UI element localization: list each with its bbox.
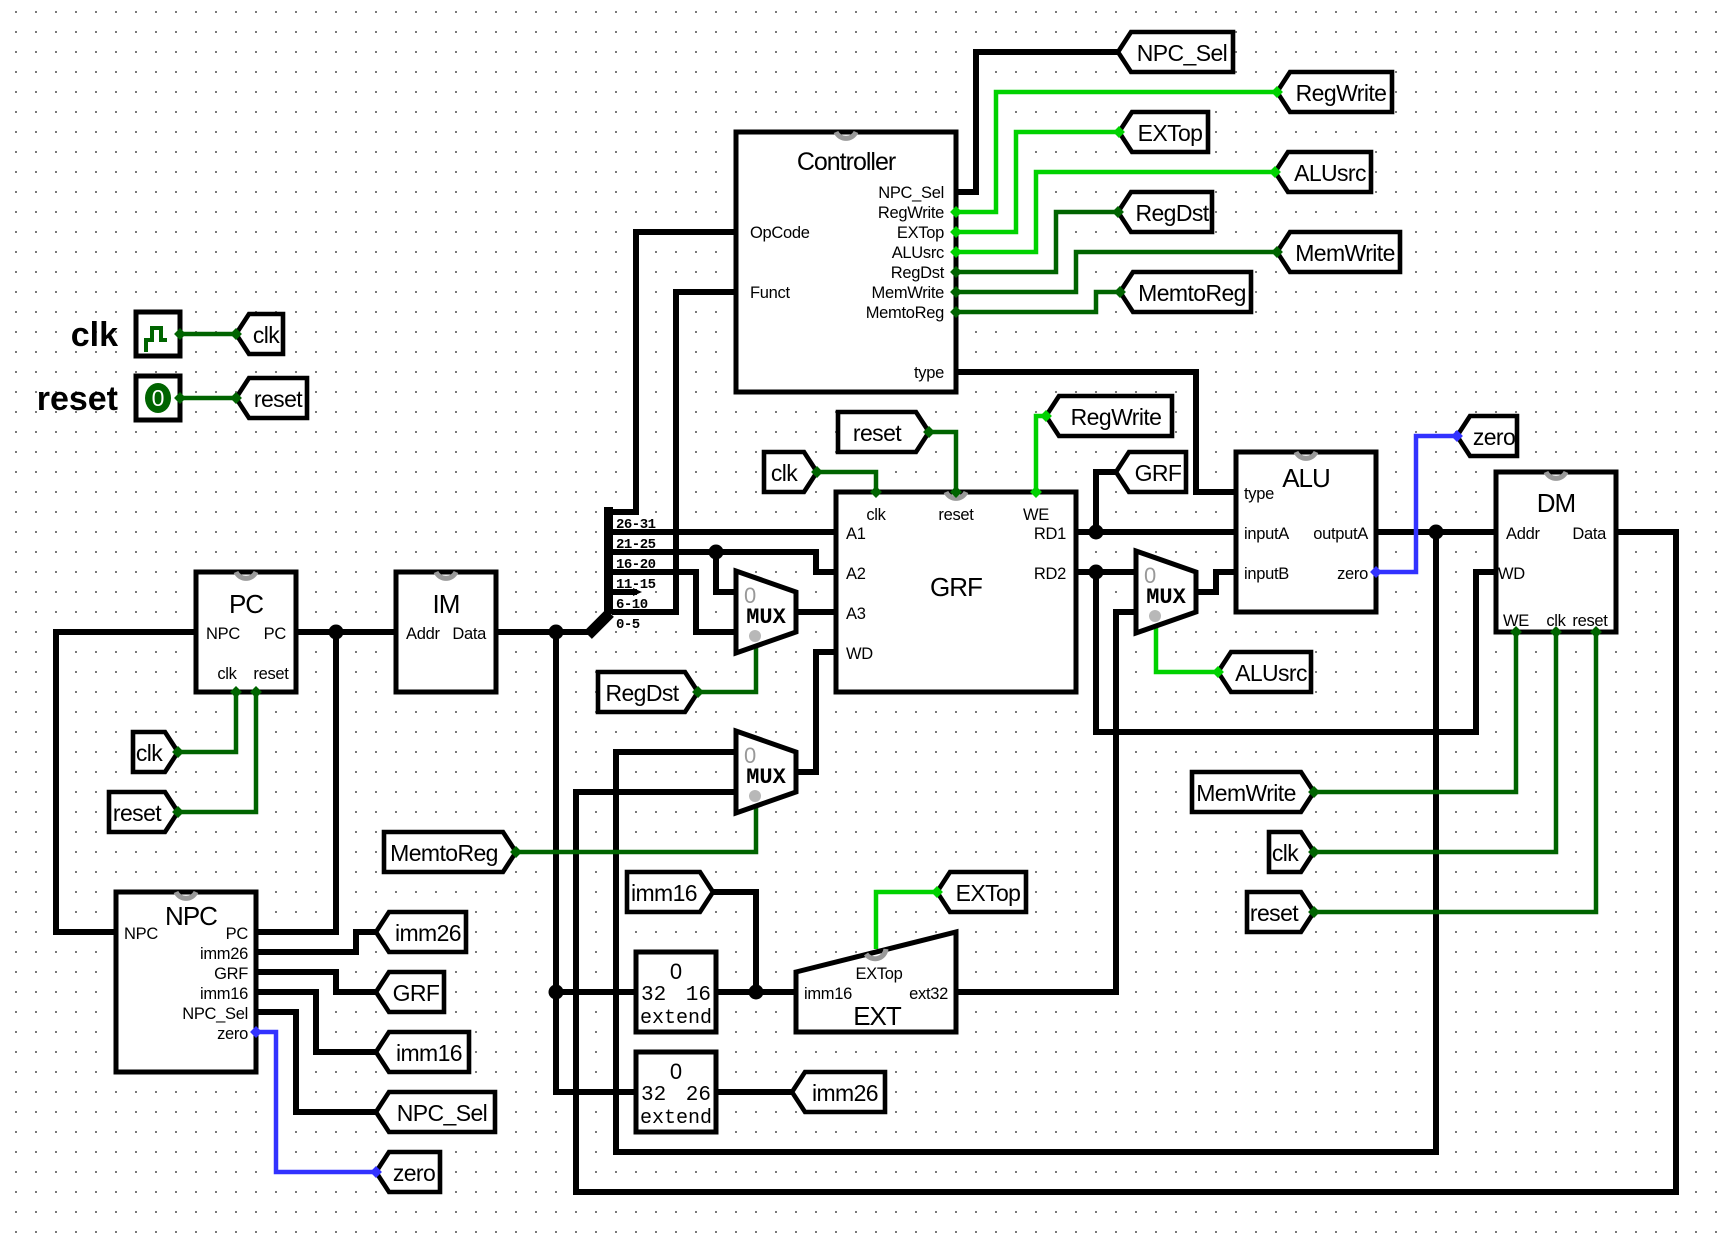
svg-text:WE: WE xyxy=(1023,506,1049,524)
svg-text:A2: A2 xyxy=(846,565,866,583)
svg-text:extend: extend xyxy=(640,1107,712,1130)
wire reset input pin to reset tunnel xyxy=(180,396,236,401)
tunnel zero at 1457,436 xyxy=(1457,416,1517,456)
wire clk tunnel to DM clk xyxy=(1314,629,1556,852)
clk input pin xyxy=(136,312,180,356)
svg-text:reset: reset xyxy=(254,386,303,412)
extender 32-16 block xyxy=(636,952,716,1032)
svg-text:DM: DM xyxy=(1537,488,1575,518)
wire RD2 node down and around to DM WD xyxy=(1096,572,1496,732)
svg-text:ALU: ALU xyxy=(1282,463,1330,493)
wire PC value riser to NPC PC input xyxy=(256,632,336,932)
notch ALU xyxy=(1296,452,1316,458)
svg-text:clk: clk xyxy=(253,322,280,348)
svg-text:WD: WD xyxy=(1498,565,1525,583)
label MUX3 texts xyxy=(1144,563,1187,610)
wire RegDst: Controller to RegDst tunnel xyxy=(956,212,1118,272)
tunnel RegDst at 698,692 xyxy=(598,672,698,712)
wire ALUsrc tunnel to MUX3 select xyxy=(1156,623,1218,672)
MUX1 RegDst mux xyxy=(736,571,796,653)
wire EXT ext32 output to MUX3 input 1 xyxy=(956,612,1136,992)
svg-text:Data: Data xyxy=(452,625,487,643)
wire ALU outputA to DM Addr xyxy=(1376,529,1496,535)
ALU block xyxy=(1236,452,1376,612)
svg-text:11-15: 11-15 xyxy=(616,577,656,593)
svg-text:inputA: inputA xyxy=(1244,525,1289,543)
svg-text:NPC_Sel: NPC_Sel xyxy=(397,1100,487,1126)
svg-text:MemtoReg: MemtoReg xyxy=(1138,280,1246,306)
MUX2 select dot xyxy=(749,790,761,802)
MUX3 select dot xyxy=(1149,610,1161,622)
label Controller left pins xyxy=(750,224,810,302)
wire GRF tunnel tap to RD1 node xyxy=(1096,472,1116,532)
wire zero: ALU zero to zero tunnel xyxy=(1376,436,1457,572)
tunnel GRF at 376,992 xyxy=(376,972,444,1012)
wire RegWrite: Controller to RegWrite tunnel xyxy=(956,92,1277,212)
wire NPC_Sel: Controller NPC_Sel output to NPC_Sel tunnel xyxy=(956,52,1118,192)
wire splitter 11-15 spoke to MUX1 input 1 xyxy=(612,572,736,632)
tunnel RegWrite at 1277,92 xyxy=(1277,72,1392,112)
svg-text:0: 0 xyxy=(670,1059,682,1084)
tunnel MemWrite at 1277,252 xyxy=(1277,232,1400,272)
extender 32-26 block xyxy=(636,1052,716,1132)
splitter stem diagonal xyxy=(588,613,610,635)
tunnel MemWrite at 1314,792 xyxy=(1192,772,1314,812)
IM instruction memory block xyxy=(396,572,496,692)
tunnel EXTop at 1119,132 xyxy=(1119,112,1208,152)
notch DM xyxy=(1546,472,1566,478)
svg-text:16-20: 16-20 xyxy=(616,557,656,573)
node instruction bus to extend 32-16 junction xyxy=(549,985,564,1000)
svg-text:GRF: GRF xyxy=(1135,460,1182,486)
svg-text:type: type xyxy=(1244,485,1274,503)
node IM Data junction xyxy=(549,625,564,640)
svg-text:6-10: 6-10 xyxy=(616,597,648,613)
svg-text:MemtoReg: MemtoReg xyxy=(390,840,498,866)
wire MUX1 output to GRF A3 xyxy=(796,609,836,615)
svg-text:imm26: imm26 xyxy=(812,1080,878,1106)
svg-text:extend: extend xyxy=(640,1007,712,1030)
label ALU title and pins xyxy=(1244,463,1368,583)
svg-text:IM: IM xyxy=(433,589,460,619)
wire OpCode: splitter 26-31 spoke to Controller OpCode xyxy=(612,232,736,512)
svg-text:type: type xyxy=(914,364,944,382)
svg-text:RegDst: RegDst xyxy=(891,264,945,282)
tunnel imm16 at 376,1052 xyxy=(376,1032,469,1072)
label Controller right pins xyxy=(866,184,945,382)
svg-text:reset: reset xyxy=(1250,900,1299,926)
svg-text:outputA: outputA xyxy=(1313,525,1368,543)
wire instruction bus down-left to extend 32-26 input xyxy=(556,632,636,1092)
label extender 32-16 texts xyxy=(640,959,712,1030)
svg-text:EXTop: EXTop xyxy=(1138,120,1203,146)
svg-text:imm16: imm16 xyxy=(200,985,248,1003)
svg-text:MemtoReg: MemtoReg xyxy=(866,304,944,322)
wire reset tunnel to PC reset xyxy=(178,689,256,812)
svg-text:GRF: GRF xyxy=(214,965,248,983)
wire EXTop: Controller to EXTop tunnel xyxy=(956,132,1119,232)
wire extend 32-16 output to EXT imm16 input xyxy=(716,989,796,995)
wire EXTop tunnel to EXT EXTop xyxy=(876,892,937,949)
tunnel ALUsrc at 1218,672 xyxy=(1218,652,1311,692)
svg-text:RegDst: RegDst xyxy=(1135,200,1209,226)
label PC title and pins xyxy=(206,589,289,683)
tunnel NPC_Sel at 376,1112 xyxy=(376,1092,495,1132)
wire splitter 16-20 spoke to GRF A2 xyxy=(612,552,836,572)
svg-text:clk: clk xyxy=(217,665,237,683)
svg-text:0: 0 xyxy=(152,385,165,411)
tunnel zero at 376,1172 xyxy=(376,1152,440,1192)
svg-text:0: 0 xyxy=(670,959,682,984)
EXT sign extender block xyxy=(796,932,956,1032)
svg-text:A3: A3 xyxy=(846,605,866,623)
svg-text:zero: zero xyxy=(1473,424,1515,450)
svg-text:Addr: Addr xyxy=(1506,525,1540,543)
tunnel reset at 178,812 xyxy=(109,792,178,832)
label IM title and pins xyxy=(406,589,487,643)
svg-text:32: 32 xyxy=(641,1084,666,1107)
node ALU outputA junction xyxy=(1429,525,1444,540)
wire MemWrite: Controller to MemWrite tunnel xyxy=(956,252,1277,292)
NPC block xyxy=(116,892,256,1072)
tunnel ALUsrc at 1275,172 xyxy=(1275,152,1371,192)
tunnel RegWrite at 1046,416 xyxy=(1046,396,1172,436)
tunnel clk at 817,472 xyxy=(764,452,817,492)
svg-text:NPC_Sel: NPC_Sel xyxy=(1137,40,1227,66)
label extender 32-26 texts xyxy=(640,1059,712,1130)
PC register block xyxy=(196,572,296,692)
svg-text:GRF: GRF xyxy=(393,980,440,1006)
wire MUX2 output to GRF WD xyxy=(796,652,836,772)
svg-text:zero: zero xyxy=(393,1160,435,1186)
svg-text:imm26: imm26 xyxy=(395,920,461,946)
svg-text:Controller: Controller xyxy=(797,148,896,176)
wire Funct: splitter 0-5 spoke to Controller Funct xyxy=(612,292,736,612)
notch GRF xyxy=(946,492,966,498)
svg-text:NPC: NPC xyxy=(124,925,158,943)
svg-text:clk: clk xyxy=(771,460,798,486)
label splitter bit ranges xyxy=(616,517,656,633)
svg-text:clk: clk xyxy=(866,506,886,524)
tunnel imm26 at 376,932 xyxy=(376,912,466,952)
svg-text:A1: A1 xyxy=(846,525,866,543)
tunnel MemtoReg at 1120,292 xyxy=(1120,272,1251,312)
wire clk tunnel to GRF clk xyxy=(817,472,876,494)
svg-text:reset: reset xyxy=(853,420,902,446)
wire NPC output loop to PC NPC input xyxy=(56,632,196,932)
label NPC title and pins xyxy=(124,901,248,1043)
MUX1 select dot xyxy=(749,630,761,642)
wire MemtoReg: Controller to MemtoReg tunnel xyxy=(956,292,1120,312)
label DM title and pins xyxy=(1498,488,1608,630)
wire MUX3 output to ALU inputB xyxy=(1196,572,1236,592)
svg-text:clk: clk xyxy=(71,316,118,354)
svg-text:EXTop: EXTop xyxy=(855,965,902,983)
svg-text:inputB: inputB xyxy=(1244,565,1289,583)
svg-text:ALUsrc: ALUsrc xyxy=(892,244,944,262)
node PC to IM junction xyxy=(329,625,344,640)
svg-text:32: 32 xyxy=(641,984,666,1007)
svg-text:ext32: ext32 xyxy=(909,985,948,1003)
svg-text:RegWrite: RegWrite xyxy=(1071,404,1162,430)
label EXT title and pins xyxy=(804,965,948,1031)
svg-text:RD2: RD2 xyxy=(1034,565,1066,583)
splitter 6-10 spoke tip xyxy=(633,588,642,596)
svg-text:MemWrite: MemWrite xyxy=(1196,780,1296,806)
svg-text:26: 26 xyxy=(686,1084,711,1107)
node imm16 tap junction xyxy=(749,985,764,1000)
wire branch from node at 716,552 to MUX1 input 0 xyxy=(716,552,736,592)
tunnel reset at 929,432 xyxy=(838,412,929,452)
svg-text:EXTop: EXTop xyxy=(897,224,944,242)
wire NPC GRF input from GRF tunnel xyxy=(256,972,376,992)
svg-text:imm16: imm16 xyxy=(631,880,697,906)
svg-text:RegWrite: RegWrite xyxy=(1296,80,1387,106)
wire RegDst tunnel to MUX1 select xyxy=(698,645,756,692)
svg-text:zero: zero xyxy=(217,1025,248,1043)
svg-text:PC: PC xyxy=(264,625,287,643)
svg-text:WD: WD xyxy=(846,645,873,663)
svg-text:MemWrite: MemWrite xyxy=(872,284,945,302)
reset input pin xyxy=(136,376,180,420)
wire zero tunnel to NPC zero input xyxy=(256,1032,376,1172)
tunnel clk at 178,752 xyxy=(133,732,178,772)
svg-text:MUX: MUX xyxy=(746,605,786,630)
svg-text:0-5: 0-5 xyxy=(616,617,640,633)
svg-text:EXTop: EXTop xyxy=(956,880,1021,906)
svg-text:Addr: Addr xyxy=(406,625,440,643)
wire clk tunnel to PC clk xyxy=(178,689,236,752)
svg-text:PC: PC xyxy=(229,589,263,619)
wire RegWrite tunnel to GRF WE xyxy=(1036,416,1046,494)
svg-text:Data: Data xyxy=(1572,525,1607,543)
tunnel NPC_Sel at 1118,52 xyxy=(1118,32,1233,72)
wire NPC imm16 input from imm16 tunnel xyxy=(256,992,376,1052)
svg-text:PC: PC xyxy=(226,925,249,943)
svg-text:OpCode: OpCode xyxy=(750,224,810,242)
wire GRF RD1 to ALU inputA xyxy=(1076,529,1236,535)
svg-text:NPC: NPC xyxy=(206,625,240,643)
svg-text:NPC: NPC xyxy=(165,901,217,931)
wire NPC NPC_Sel input from NPC_Sel tunnel xyxy=(256,1012,376,1112)
tunnel RegDst at 1118,212 xyxy=(1118,192,1212,232)
label MUX2 texts xyxy=(744,743,787,790)
wire PC output to IM Addr xyxy=(296,629,396,635)
wire reset tunnel to GRF reset xyxy=(929,432,956,494)
svg-text:clk: clk xyxy=(1546,612,1566,630)
svg-text:reset: reset xyxy=(37,380,118,418)
svg-text:RD1: RD1 xyxy=(1034,525,1066,543)
GRF register file block xyxy=(836,492,1076,692)
svg-text:WE: WE xyxy=(1503,612,1529,630)
svg-text:RegWrite: RegWrite xyxy=(878,204,944,222)
tunnel reset at 1314,912 xyxy=(1247,892,1314,932)
wire splitter 21-25 spoke to GRF A1 xyxy=(612,529,836,535)
label MUX1 texts xyxy=(744,583,787,630)
tunnel EXTop at 937,892 xyxy=(937,872,1026,912)
tunnel reset at 236,398 xyxy=(236,378,307,418)
svg-text:RegDst: RegDst xyxy=(605,680,679,706)
svg-text:clk: clk xyxy=(136,740,163,766)
svg-text:16: 16 xyxy=(686,984,711,1007)
svg-text:reset: reset xyxy=(113,800,162,826)
svg-text:21-25: 21-25 xyxy=(616,537,656,553)
svg-text:reset: reset xyxy=(938,506,974,524)
svg-text:zero: zero xyxy=(1337,565,1368,583)
svg-text:reset: reset xyxy=(253,665,289,683)
svg-text:ALUsrc: ALUsrc xyxy=(1235,660,1307,686)
wire GRF RD2 to MUX3 input 0 xyxy=(1076,569,1136,575)
MUX2 MemtoReg mux xyxy=(736,731,796,813)
wire ALU result loop to MUX2 input 0 xyxy=(616,532,1436,1152)
tunnel imm16 at 713,892 xyxy=(627,872,713,912)
svg-text:imm16: imm16 xyxy=(396,1040,462,1066)
wire IM Data output to splitter stem xyxy=(496,629,590,635)
notch Controller xyxy=(836,132,856,138)
svg-text:imm26: imm26 xyxy=(200,945,248,963)
wire ALUsrc: Controller to ALUsrc tunnel xyxy=(956,172,1275,252)
node RD1 junction xyxy=(1089,525,1104,540)
svg-text:EXT: EXT xyxy=(853,1001,902,1031)
svg-text:NPC_Sel: NPC_Sel xyxy=(878,184,944,202)
notch NPC xyxy=(176,892,196,898)
wire imm16 tunnel tap riser xyxy=(713,892,756,992)
DM data memory block xyxy=(1496,472,1616,632)
node RD2 junction xyxy=(1089,565,1104,580)
wire NPC PC... imm26 output jog to imm26 tunnel xyxy=(256,932,376,952)
svg-text:ALUsrc: ALUsrc xyxy=(1294,160,1366,186)
wire MemWrite tunnel to DM WE xyxy=(1314,629,1516,792)
wire clk input pin to clk tunnel xyxy=(180,332,236,337)
wire extend 32-26 output to imm26 tunnel xyxy=(716,1089,792,1095)
tunnel imm26 at 792,1092 xyxy=(792,1072,885,1112)
wire splitter 6-10 stub xyxy=(612,589,637,595)
tunnel MemtoReg at 516,852 xyxy=(384,832,516,872)
wire MemtoReg tunnel to MUX2 select xyxy=(516,804,756,852)
svg-text:MUX: MUX xyxy=(746,765,786,790)
reset input pin zero value oval xyxy=(145,383,171,413)
clk input pin waveform icon xyxy=(146,328,167,352)
notch EXT xyxy=(866,949,886,959)
svg-text:Funct: Funct xyxy=(750,284,790,302)
svg-text:MemWrite: MemWrite xyxy=(1295,240,1395,266)
splitter bar xyxy=(604,507,613,614)
notch PC xyxy=(236,572,256,578)
notch IM xyxy=(436,572,456,578)
MUX3 ALUsrc mux xyxy=(1136,551,1196,633)
tunnel clk at 1314,852 xyxy=(1269,832,1314,872)
label GRF title and pins xyxy=(846,506,1066,663)
svg-text:reset: reset xyxy=(1572,612,1608,630)
svg-text:GRF: GRF xyxy=(930,572,982,602)
svg-text:MUX: MUX xyxy=(1146,585,1186,610)
svg-text:clk: clk xyxy=(1272,840,1299,866)
wire type: Controller type output to ALU type input xyxy=(956,372,1236,492)
svg-text:26-31: 26-31 xyxy=(616,517,656,533)
wire DM Data loop to MUX2 input 1 xyxy=(576,532,1676,1192)
svg-text:imm16: imm16 xyxy=(804,985,852,1003)
node splitter 16-20 spoke junction xyxy=(709,545,724,560)
Controller U1 xyxy=(736,132,956,392)
tunnel clk at 236,334 xyxy=(236,314,283,354)
wire instruction bus to extend 32-16 input xyxy=(556,989,636,995)
svg-text:NPC_Sel: NPC_Sel xyxy=(182,1005,248,1023)
tunnel GRF at 1116,472 xyxy=(1116,452,1186,492)
wire end nubs xyxy=(172,86,1602,1178)
wire reset tunnel to DM reset xyxy=(1314,629,1596,912)
